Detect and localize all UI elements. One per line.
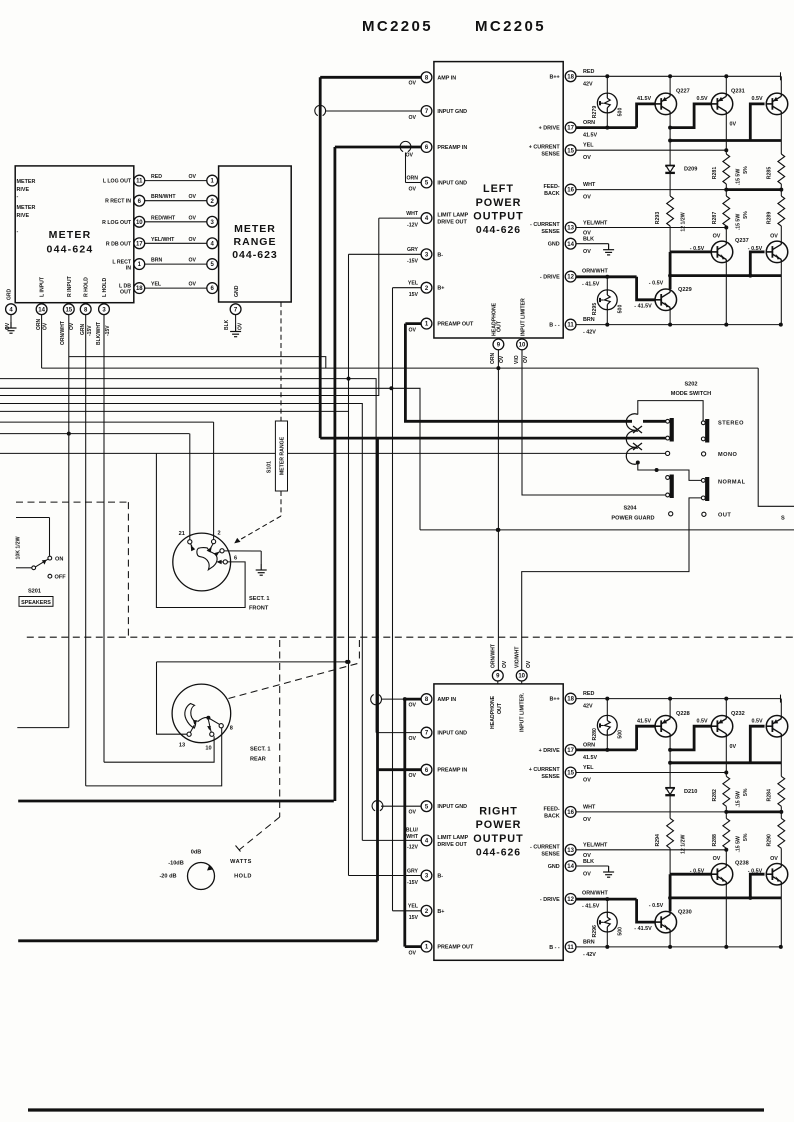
svg-text:OV: OV bbox=[238, 322, 244, 330]
svg-text:0dB: 0dB bbox=[191, 850, 202, 856]
wire to resistor bbox=[725, 150, 727, 154]
junction bbox=[605, 126, 609, 130]
junction B-- bbox=[724, 323, 728, 327]
shield loop left pin6 bbox=[400, 141, 411, 151]
wire B++ rail bbox=[576, 75, 780, 77]
wire loop to junction right pin8 bbox=[382, 698, 405, 700]
left power output pin 6 bbox=[421, 142, 432, 153]
svg-text:GRD: GRD bbox=[7, 289, 13, 301]
svg-text:OV: OV bbox=[409, 115, 417, 121]
svg-text:NORMAL: NORMAL bbox=[718, 479, 746, 485]
wire bus H5 to left pin4 bbox=[0, 218, 379, 395]
svg-text:OUTPUT: OUTPUT bbox=[473, 833, 523, 845]
lamp/rheostat R279 500 bbox=[597, 93, 617, 113]
transistor (cut at page edge) bbox=[766, 863, 788, 885]
svg-text:OUTPUT: OUTPUT bbox=[473, 211, 523, 223]
resistor R281 .15 5W 5% bbox=[723, 154, 730, 184]
wire thick to Q1 base bbox=[637, 726, 655, 750]
svg-text:WHT: WHT bbox=[406, 834, 419, 840]
transistor (cut at page edge) bbox=[766, 241, 788, 263]
svg-text:-15V: -15V bbox=[407, 880, 418, 886]
svg-text:15V: 15V bbox=[409, 915, 419, 921]
junction bbox=[779, 810, 783, 814]
contact STEREO left bottom bbox=[666, 436, 670, 440]
svg-text:RED: RED bbox=[151, 174, 162, 180]
wire Q2 emitter down bbox=[725, 737, 727, 773]
svg-text:+ DRIVE: + DRIVE bbox=[539, 748, 561, 754]
svg-text:21: 21 bbox=[179, 531, 185, 537]
svg-text:GND: GND bbox=[548, 242, 560, 248]
wire -DRIVE pin stub thick bbox=[576, 275, 636, 278]
svg-text:OV: OV bbox=[189, 282, 197, 288]
svg-text:2: 2 bbox=[217, 531, 220, 537]
svg-text:8: 8 bbox=[230, 726, 233, 732]
wire ORN L-INPUT down from meter pin 14 bbox=[41, 315, 43, 369]
contact ON S201 bbox=[48, 556, 52, 560]
resistor R288 .15 5W 5% bbox=[723, 818, 730, 848]
svg-text:WHT: WHT bbox=[406, 211, 419, 217]
transistor Q238 bbox=[711, 863, 733, 885]
svg-text:14: 14 bbox=[567, 864, 574, 870]
svg-text:B-: B- bbox=[437, 874, 443, 880]
svg-text:B - -: B - - bbox=[549, 323, 560, 329]
meter pin 14 bbox=[36, 304, 47, 315]
svg-text:PREAMP IN: PREAMP IN bbox=[437, 145, 467, 151]
wire right pin5 stub bbox=[381, 805, 421, 807]
wire contact13 to wiper bbox=[190, 725, 194, 732]
svg-text:ON: ON bbox=[55, 557, 63, 563]
rail end tick bbox=[780, 72, 782, 80]
svg-text:BLK/WHT: BLK/WHT bbox=[96, 322, 102, 345]
svg-text:FEED-: FEED- bbox=[544, 184, 560, 190]
shield loop right pin8 bbox=[371, 695, 382, 705]
svg-text:REAR: REAR bbox=[250, 757, 266, 763]
wire +DRIVE rail thick bbox=[670, 139, 781, 142]
svg-text:B+: B+ bbox=[437, 909, 444, 915]
meter range pin 4 bbox=[207, 238, 218, 249]
junction bbox=[668, 126, 672, 130]
svg-text:- 0.5V: - 0.5V bbox=[649, 281, 664, 287]
wire thick to Q5 base bbox=[637, 899, 655, 922]
right power output pin 15 bbox=[565, 767, 576, 778]
wire RED meter pin 11 to range pin 1 bbox=[145, 180, 207, 182]
wire contact6 wrap bbox=[156, 454, 245, 608]
wire right pin2 stub bbox=[393, 910, 422, 912]
svg-text:SENSE: SENSE bbox=[541, 774, 560, 780]
svg-text:RANGE: RANGE bbox=[234, 236, 277, 248]
svg-text:OV: OV bbox=[5, 322, 11, 330]
junction B-- bbox=[779, 323, 783, 327]
resistor R294 12 1/2W bbox=[667, 818, 674, 848]
svg-text:S101: S101 bbox=[266, 461, 272, 473]
svg-text:ORN/WHT: ORN/WHT bbox=[491, 644, 497, 668]
svg-text:+ CURRENT: + CURRENT bbox=[529, 145, 561, 151]
junction bbox=[605, 748, 609, 752]
svg-text:PREAMP OUT: PREAMP OUT bbox=[437, 322, 474, 328]
meter range pin 5 bbox=[207, 259, 218, 270]
resistor R293 12 1/2W bbox=[667, 196, 674, 226]
svg-text:- 41.5V: - 41.5V bbox=[634, 926, 652, 932]
transistor Q236 (cut at page edge) bbox=[766, 715, 788, 737]
wire down to +drive rail bbox=[669, 128, 671, 141]
svg-text:13: 13 bbox=[567, 848, 574, 854]
ground pin14 bbox=[603, 866, 614, 877]
svg-text:OUT: OUT bbox=[497, 702, 503, 714]
junction bbox=[724, 226, 728, 230]
svg-text:OV: OV bbox=[583, 249, 591, 255]
wire bus H9 to front contact21 bbox=[0, 433, 190, 435]
svg-text:Q229: Q229 bbox=[678, 287, 692, 293]
svg-text:POWER GUARD: POWER GUARD bbox=[611, 516, 654, 522]
contact STEREO left top bbox=[666, 419, 670, 423]
svg-text:OV: OV bbox=[583, 817, 591, 823]
svg-text:12: 12 bbox=[567, 275, 574, 281]
contact bar NORMAL left bbox=[670, 475, 674, 499]
svg-text:15V: 15V bbox=[409, 292, 419, 298]
wire -CURRENT SENSE bbox=[576, 227, 726, 229]
wire GRY left pin3 to right pin3 bbox=[348, 254, 350, 875]
svg-text:R295: R295 bbox=[592, 303, 598, 316]
svg-text:BRN: BRN bbox=[583, 317, 595, 323]
svg-text:OV: OV bbox=[409, 951, 417, 957]
svg-text:Q230: Q230 bbox=[678, 910, 692, 916]
svg-text:BACK: BACK bbox=[544, 191, 560, 197]
resistor R287 .15 5W 5% bbox=[723, 196, 730, 226]
wire +CURRENT SENSE bbox=[576, 772, 726, 774]
svg-text:PREAMP OUT: PREAMP OUT bbox=[437, 945, 474, 951]
contact 4 front bbox=[220, 549, 224, 553]
wire RED/WHT meter pin 10 to range pin 3 bbox=[145, 221, 207, 223]
svg-text:11: 11 bbox=[136, 179, 143, 185]
svg-text:12 1/2W: 12 1/2W bbox=[681, 835, 687, 854]
wire thick to Q3 base bbox=[750, 726, 764, 763]
contact 10 rear bbox=[210, 732, 214, 736]
svg-text:YEL/WHT: YEL/WHT bbox=[151, 237, 175, 243]
shield loop left pin7 bbox=[315, 105, 326, 115]
right power output pin 8 bbox=[421, 694, 432, 705]
svg-text:12: 12 bbox=[567, 897, 574, 903]
svg-text:-15V: -15V bbox=[87, 325, 93, 336]
svg-text:BRN: BRN bbox=[151, 258, 162, 264]
svg-text:0.5V: 0.5V bbox=[696, 718, 707, 724]
ground front wafer bbox=[256, 564, 267, 575]
wire ORN headphone pin9 to pin9 bbox=[497, 350, 499, 671]
wire Q4 collector up bbox=[725, 228, 727, 242]
wire Q3 collector bbox=[780, 76, 782, 93]
wire +DRIVE rail thick bbox=[670, 761, 781, 764]
svg-text:15: 15 bbox=[567, 771, 574, 777]
svg-text:HEADPHONE: HEADPHONE bbox=[490, 695, 496, 729]
left power output pin 1 bbox=[421, 318, 432, 329]
junction bbox=[668, 748, 672, 752]
svg-text:- 41.5V: - 41.5V bbox=[582, 904, 600, 910]
svg-text:BLK: BLK bbox=[583, 237, 594, 243]
contact 6 front bbox=[223, 560, 227, 564]
svg-text:16: 16 bbox=[567, 188, 574, 194]
svg-text:17: 17 bbox=[567, 126, 574, 132]
svg-text:ORN/WHT: ORN/WHT bbox=[60, 321, 66, 345]
contact OFF S201 bbox=[48, 574, 52, 578]
tick on dashed diagonal bbox=[236, 846, 241, 852]
wire bus H8 to front contact2 bbox=[0, 421, 214, 423]
left pin 10 input limiter bbox=[517, 339, 528, 350]
svg-text:- 42V: - 42V bbox=[583, 330, 596, 336]
junction B-- bbox=[605, 323, 609, 327]
contact NORMAL right top bbox=[701, 479, 705, 483]
wire right pin3 stub bbox=[349, 875, 422, 877]
svg-text:MODE SWITCH: MODE SWITCH bbox=[671, 391, 711, 397]
svg-text:R289: R289 bbox=[767, 212, 773, 225]
dashed link to watts knob bbox=[279, 640, 281, 817]
svg-text:15: 15 bbox=[567, 148, 574, 154]
wiper rear wafer crescent bbox=[185, 704, 196, 729]
svg-text:-10dB: -10dB bbox=[168, 861, 184, 867]
diode D210 bbox=[665, 787, 675, 789]
wire B+ stub bbox=[393, 287, 422, 289]
svg-text:INPUT GND: INPUT GND bbox=[437, 181, 467, 187]
right power output pin 16 bbox=[565, 807, 576, 818]
svg-text:14: 14 bbox=[38, 307, 45, 313]
svg-text:0.5V: 0.5V bbox=[751, 96, 762, 102]
dashed link rear wafer bbox=[229, 663, 360, 699]
junction B-- bbox=[779, 945, 783, 949]
svg-text:R293: R293 bbox=[655, 212, 661, 225]
svg-text:ORN: ORN bbox=[490, 353, 496, 365]
wire stub pin10 bbox=[521, 338, 523, 339]
svg-text:METER: METER bbox=[17, 205, 36, 211]
junction bbox=[389, 386, 393, 390]
svg-text:- 0.5V: - 0.5V bbox=[690, 246, 705, 252]
wire GND stub bbox=[576, 243, 608, 245]
junction B-- bbox=[668, 323, 672, 327]
meter range pin 7 bbox=[230, 304, 241, 315]
svg-text:OV: OV bbox=[409, 81, 417, 87]
svg-text:YEL: YEL bbox=[408, 281, 419, 287]
transistor Q231 bbox=[711, 93, 733, 115]
svg-text:41.5V: 41.5V bbox=[583, 133, 597, 139]
svg-text:5%: 5% bbox=[743, 166, 749, 174]
junction B++ bbox=[668, 74, 672, 78]
wire wrap to rear contact 8 bbox=[86, 728, 222, 786]
wire loop bottom bbox=[638, 463, 657, 471]
right power output pin 2 bbox=[421, 905, 432, 916]
wire diode to resistor bbox=[669, 173, 671, 196]
wire to lamp lower bbox=[606, 277, 608, 290]
contact OUT right bbox=[702, 512, 706, 516]
wire to lamp bbox=[606, 699, 608, 716]
wire Q4 emitter down bbox=[725, 885, 727, 947]
wire VIO pin10 to NORMAL contact bbox=[522, 350, 666, 495]
junction bbox=[724, 148, 728, 152]
svg-text:OUT: OUT bbox=[120, 290, 132, 296]
svg-text:13: 13 bbox=[567, 226, 574, 232]
right power output pin 14 bbox=[565, 861, 576, 872]
contact MONO left bbox=[666, 451, 670, 455]
svg-text:0V: 0V bbox=[730, 744, 737, 750]
svg-text:BLK: BLK bbox=[224, 319, 230, 330]
left power output pin 12 bbox=[565, 271, 576, 282]
svg-text:AMP IN: AMP IN bbox=[437, 75, 456, 81]
left power output pin 18 bbox=[565, 71, 576, 82]
svg-text:GRY: GRY bbox=[407, 247, 419, 253]
svg-text:MONO: MONO bbox=[718, 452, 738, 458]
svg-text:L LOG OUT: L LOG OUT bbox=[103, 179, 132, 185]
wire YEL/WHT meter pin 17 to range pin 4 bbox=[145, 242, 207, 244]
wire to resistor bbox=[725, 773, 727, 777]
svg-text:B - -: B - - bbox=[549, 945, 560, 951]
switch arm S201 bbox=[35, 559, 48, 567]
wire Q2 emitter down bbox=[725, 115, 727, 151]
svg-text:YEL: YEL bbox=[408, 904, 419, 910]
svg-text:OV: OV bbox=[409, 736, 417, 742]
wire FEEDBACK bbox=[576, 811, 726, 813]
wire to speakers switch ON bbox=[16, 517, 50, 519]
svg-text:B+: B+ bbox=[437, 286, 444, 292]
contact bar STEREO right bbox=[705, 419, 709, 443]
svg-text:ORN: ORN bbox=[583, 120, 595, 126]
svg-text:METER: METER bbox=[49, 229, 92, 241]
svg-text:.15 5W: .15 5W bbox=[736, 791, 742, 808]
svg-text:YEL: YEL bbox=[583, 765, 594, 771]
svg-text:OV: OV bbox=[523, 355, 529, 363]
meter pin 1 bbox=[134, 259, 145, 270]
right power output pin 3 bbox=[421, 870, 432, 881]
svg-text:FRONT: FRONT bbox=[249, 606, 269, 612]
svg-text:ORN/WHT: ORN/WHT bbox=[582, 891, 608, 897]
meter pin 17 bbox=[134, 238, 145, 249]
svg-text:12 1/2W: 12 1/2W bbox=[681, 212, 687, 231]
svg-text:OFF: OFF bbox=[55, 575, 67, 581]
svg-text:OV: OV bbox=[409, 809, 417, 815]
contact NORMAL right bottom bbox=[701, 496, 705, 500]
wire thick to Q5 base bbox=[637, 277, 655, 300]
wire BRN/WHT meter pin 6 to range pin 2 bbox=[145, 200, 207, 202]
svg-text:METER: METER bbox=[234, 223, 276, 235]
wire to lamp bbox=[606, 76, 608, 93]
svg-text:- 41.5V: - 41.5V bbox=[634, 304, 652, 310]
resistor R285 bbox=[778, 154, 785, 184]
right power output pin 6 bbox=[421, 764, 432, 775]
wire +DRIVE thick bbox=[576, 126, 636, 129]
svg-text:+ CURRENT: + CURRENT bbox=[529, 767, 561, 773]
contact 13 rear bbox=[187, 732, 191, 736]
junction bbox=[347, 660, 351, 664]
svg-text:17: 17 bbox=[567, 748, 574, 754]
svg-text:R294: R294 bbox=[655, 834, 661, 847]
svg-text:RIVE: RIVE bbox=[17, 187, 30, 193]
junction bbox=[748, 896, 752, 900]
wire thick to STEREO contact lower bbox=[320, 437, 665, 440]
svg-text:SPEAKERS: SPEAKERS bbox=[21, 600, 51, 606]
svg-text:42V: 42V bbox=[583, 81, 593, 87]
wire right pin7 stub bbox=[376, 732, 421, 734]
right power output pin 1 bbox=[421, 941, 432, 952]
svg-text:RIGHT: RIGHT bbox=[479, 805, 518, 817]
junction bbox=[347, 377, 351, 381]
svg-text:OV: OV bbox=[526, 660, 532, 668]
svg-text:L RECT: L RECT bbox=[112, 259, 131, 265]
svg-text:WATTS: WATTS bbox=[230, 859, 252, 865]
contact STEREO right bottom bbox=[701, 437, 705, 441]
wire -CURRENT SENSE bbox=[576, 849, 726, 851]
meter range board 044-623 bbox=[219, 166, 292, 302]
wire AMP IN left stub thick bbox=[320, 76, 421, 79]
wire FEEDBACK thick right bbox=[726, 188, 781, 191]
svg-text:10K 1/2W: 10K 1/2W bbox=[16, 536, 22, 559]
right pin 10 input limiter bbox=[516, 670, 527, 681]
wire resistor to feedback bbox=[725, 184, 727, 190]
contact MONO right bbox=[702, 452, 706, 456]
contact NORMAL left bottom bbox=[666, 493, 670, 497]
svg-text:D209: D209 bbox=[684, 167, 697, 173]
ground pin14 bbox=[603, 244, 614, 255]
svg-text:S202: S202 bbox=[684, 382, 697, 388]
svg-text:0.5V: 0.5V bbox=[751, 718, 762, 724]
dashed link rear wafer vertical bbox=[358, 640, 360, 663]
left power output pin 15 bbox=[565, 145, 576, 156]
wire INPUT GND pin7 stub bbox=[326, 110, 422, 112]
svg-text:INPUT GND: INPUT GND bbox=[437, 109, 467, 115]
svg-text:B++: B++ bbox=[549, 74, 559, 80]
svg-text:S201: S201 bbox=[28, 589, 41, 595]
svg-text:DRIVE OUT: DRIVE OUT bbox=[437, 220, 467, 226]
svg-text:41.5V: 41.5V bbox=[637, 718, 651, 724]
wire Q1 emitter down bbox=[669, 737, 671, 750]
svg-text:S: S bbox=[781, 516, 785, 522]
knob watts hold bbox=[188, 863, 215, 890]
wire Q2 collector to B++ bbox=[725, 699, 727, 716]
svg-text:OV: OV bbox=[770, 234, 778, 240]
svg-text:OUT: OUT bbox=[497, 320, 503, 332]
left power output pin 8 bbox=[421, 72, 432, 83]
svg-text:-15V: -15V bbox=[105, 325, 111, 336]
junction bbox=[724, 810, 728, 814]
wire bus H2 ORN headphone bbox=[42, 367, 759, 369]
svg-text:.15 5W: .15 5W bbox=[736, 169, 742, 186]
svg-text:OV: OV bbox=[583, 778, 591, 784]
svg-text:ORN/WHT: ORN/WHT bbox=[582, 268, 608, 274]
wire to NORMAL right contact bbox=[657, 470, 701, 480]
svg-text:HOLD: HOLD bbox=[234, 874, 252, 880]
svg-text:AMP IN: AMP IN bbox=[437, 697, 456, 703]
transistor Q230 bbox=[655, 911, 677, 933]
junction bbox=[345, 660, 349, 664]
svg-text:41.5V: 41.5V bbox=[583, 755, 597, 761]
svg-text:OV: OV bbox=[713, 856, 721, 862]
right power output pin 18 bbox=[565, 693, 576, 704]
svg-text:-12V: -12V bbox=[407, 845, 418, 851]
wire thick base edge transistor bbox=[750, 252, 764, 276]
wire hub to contact 8 bbox=[210, 719, 220, 725]
left pin 9 headphone out bbox=[493, 339, 504, 350]
wire to lamp lower bbox=[606, 899, 608, 912]
junction bbox=[403, 697, 407, 701]
wire Q5 emitter down bbox=[669, 311, 671, 325]
svg-text:INPUT GND: INPUT GND bbox=[437, 804, 467, 810]
meter pin 11 bbox=[134, 175, 145, 186]
transistor Q237 bbox=[711, 241, 733, 263]
wire bus H1 bbox=[69, 357, 326, 369]
wire to Q4edge collector bbox=[780, 226, 782, 241]
wire bus H6 to right pin4 bbox=[0, 404, 362, 841]
svg-text:FEED-: FEED- bbox=[544, 806, 560, 812]
lamp/rheostat R295 500 bbox=[597, 290, 617, 310]
junction B++ bbox=[668, 697, 672, 701]
junction bbox=[724, 771, 728, 775]
contact NORMAL left top bbox=[666, 476, 670, 480]
wire to Q4edge collector bbox=[780, 848, 782, 863]
svg-text:L DB: L DB bbox=[119, 283, 131, 289]
